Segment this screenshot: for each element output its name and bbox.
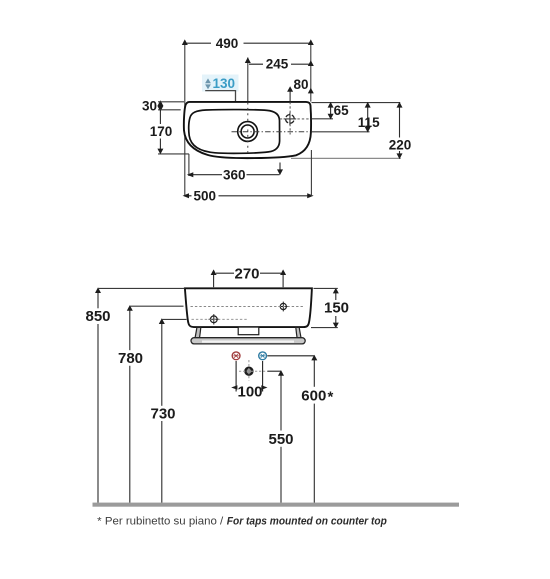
svg-text:360: 360 — [223, 167, 246, 182]
tap hole lower-left (elevation) — [192, 314, 249, 324]
drain (plan) outer circle — [238, 122, 258, 142]
wire: right ext to 500 — [310, 150, 312, 196]
svg-text:115: 115 — [358, 115, 380, 130]
svg-text:780: 780 — [118, 350, 143, 367]
svg-text:* Per rubinetto su piano /: * Per rubinetto su piano / — [97, 515, 224, 527]
leg left (elevation) — [195, 327, 201, 338]
dim 550 — [268, 370, 294, 503]
dim 850 — [85, 287, 110, 502]
dim 500 — [183, 189, 314, 204]
tap hole upper-right (elevation) — [191, 302, 304, 312]
dim 65 — [328, 102, 350, 120]
hot water symbol (red) — [232, 352, 240, 360]
wire: ext 150 bottom — [311, 327, 338, 329]
dim 780 — [118, 305, 143, 503]
svg-text:150: 150 — [324, 299, 349, 316]
drain horizontal centreline (dashed) — [232, 131, 311, 133]
dim 490 — [182, 36, 314, 51]
svg-text:30: 30 — [142, 98, 157, 113]
svg-text:130: 130 — [213, 76, 236, 91]
dim 80 — [287, 77, 314, 102]
cold water symbol (blue) — [259, 352, 267, 360]
basin inner bowl (plan) — [189, 110, 280, 154]
dim 245 — [245, 57, 314, 72]
tap hole (plan) — [280, 102, 309, 135]
basin body (elevation) — [185, 288, 312, 327]
svg-text:550: 550 — [268, 431, 293, 448]
svg-text:80: 80 — [293, 77, 308, 92]
wire: dotted ext right tap (elevation) — [282, 288, 284, 325]
wire: ext 150 top — [314, 287, 338, 289]
dim 115 — [358, 102, 380, 133]
svg-text:500: 500 — [194, 189, 217, 204]
wire: drain centre extension (245 left) — [247, 58, 249, 102]
svg-text:730: 730 — [150, 405, 175, 422]
drain trap (elevation) — [239, 360, 268, 381]
drain (plan) inner circle — [241, 125, 254, 138]
wire: ext 30 top — [158, 101, 184, 103]
svg-text:600: 600 — [301, 388, 326, 405]
leg right (elevation) — [296, 327, 301, 338]
dim 220 — [389, 102, 412, 159]
wire: ext 850 top — [98, 287, 185, 289]
wire: ext 730 top — [162, 318, 187, 320]
wire: dotted ext left tap (elevation) — [213, 288, 215, 325]
wire: bottom ext right (220, grey) — [291, 157, 401, 159]
wire: vertical ext to 360 — [188, 154, 190, 176]
dim 30 and 170 shared line — [142, 98, 172, 154]
svg-text:270: 270 — [234, 265, 259, 282]
dim 270 — [211, 265, 287, 287]
wire: ext 30 bottom / bowl top — [158, 109, 181, 111]
wire: right extension line (490/245/80) — [310, 41, 312, 102]
floor line — [93, 503, 460, 507]
bracket bar (elevation) — [191, 338, 305, 344]
wire: ext 780 top — [130, 305, 184, 307]
svg-text:850: 850 — [85, 308, 110, 325]
overflow recess (elevation) — [238, 327, 259, 335]
wire: left extension line (490/500) — [184, 41, 186, 196]
svg-text:170: 170 — [150, 124, 173, 139]
svg-text:220: 220 — [389, 137, 412, 152]
drain vertical centreline (dash-dot) — [247, 103, 249, 154]
dim 150 — [324, 288, 349, 329]
svg-text:65: 65 — [334, 103, 350, 118]
wire: drain ext right — [312, 131, 370, 133]
dim 600* — [267, 355, 333, 503]
svg-text:*: * — [328, 389, 334, 406]
wire: tap-hole ext right — [312, 118, 334, 120]
wire: right ext top (65/115/220 reference) — [312, 102, 401, 104]
svg-text:245: 245 — [266, 57, 289, 72]
wire: ext 170 bottom — [158, 153, 189, 155]
dim 130 (blue, adjustable) — [202, 75, 239, 111]
svg-text:For taps mounted on counter to: For taps mounted on counter top — [227, 515, 387, 527]
svg-text:100: 100 — [237, 384, 262, 401]
dim 730 — [150, 318, 175, 503]
svg-text:490: 490 — [216, 36, 239, 51]
basin outline (plan) — [184, 102, 311, 158]
dim 360 — [187, 163, 283, 183]
dim 100 — [231, 361, 267, 401]
